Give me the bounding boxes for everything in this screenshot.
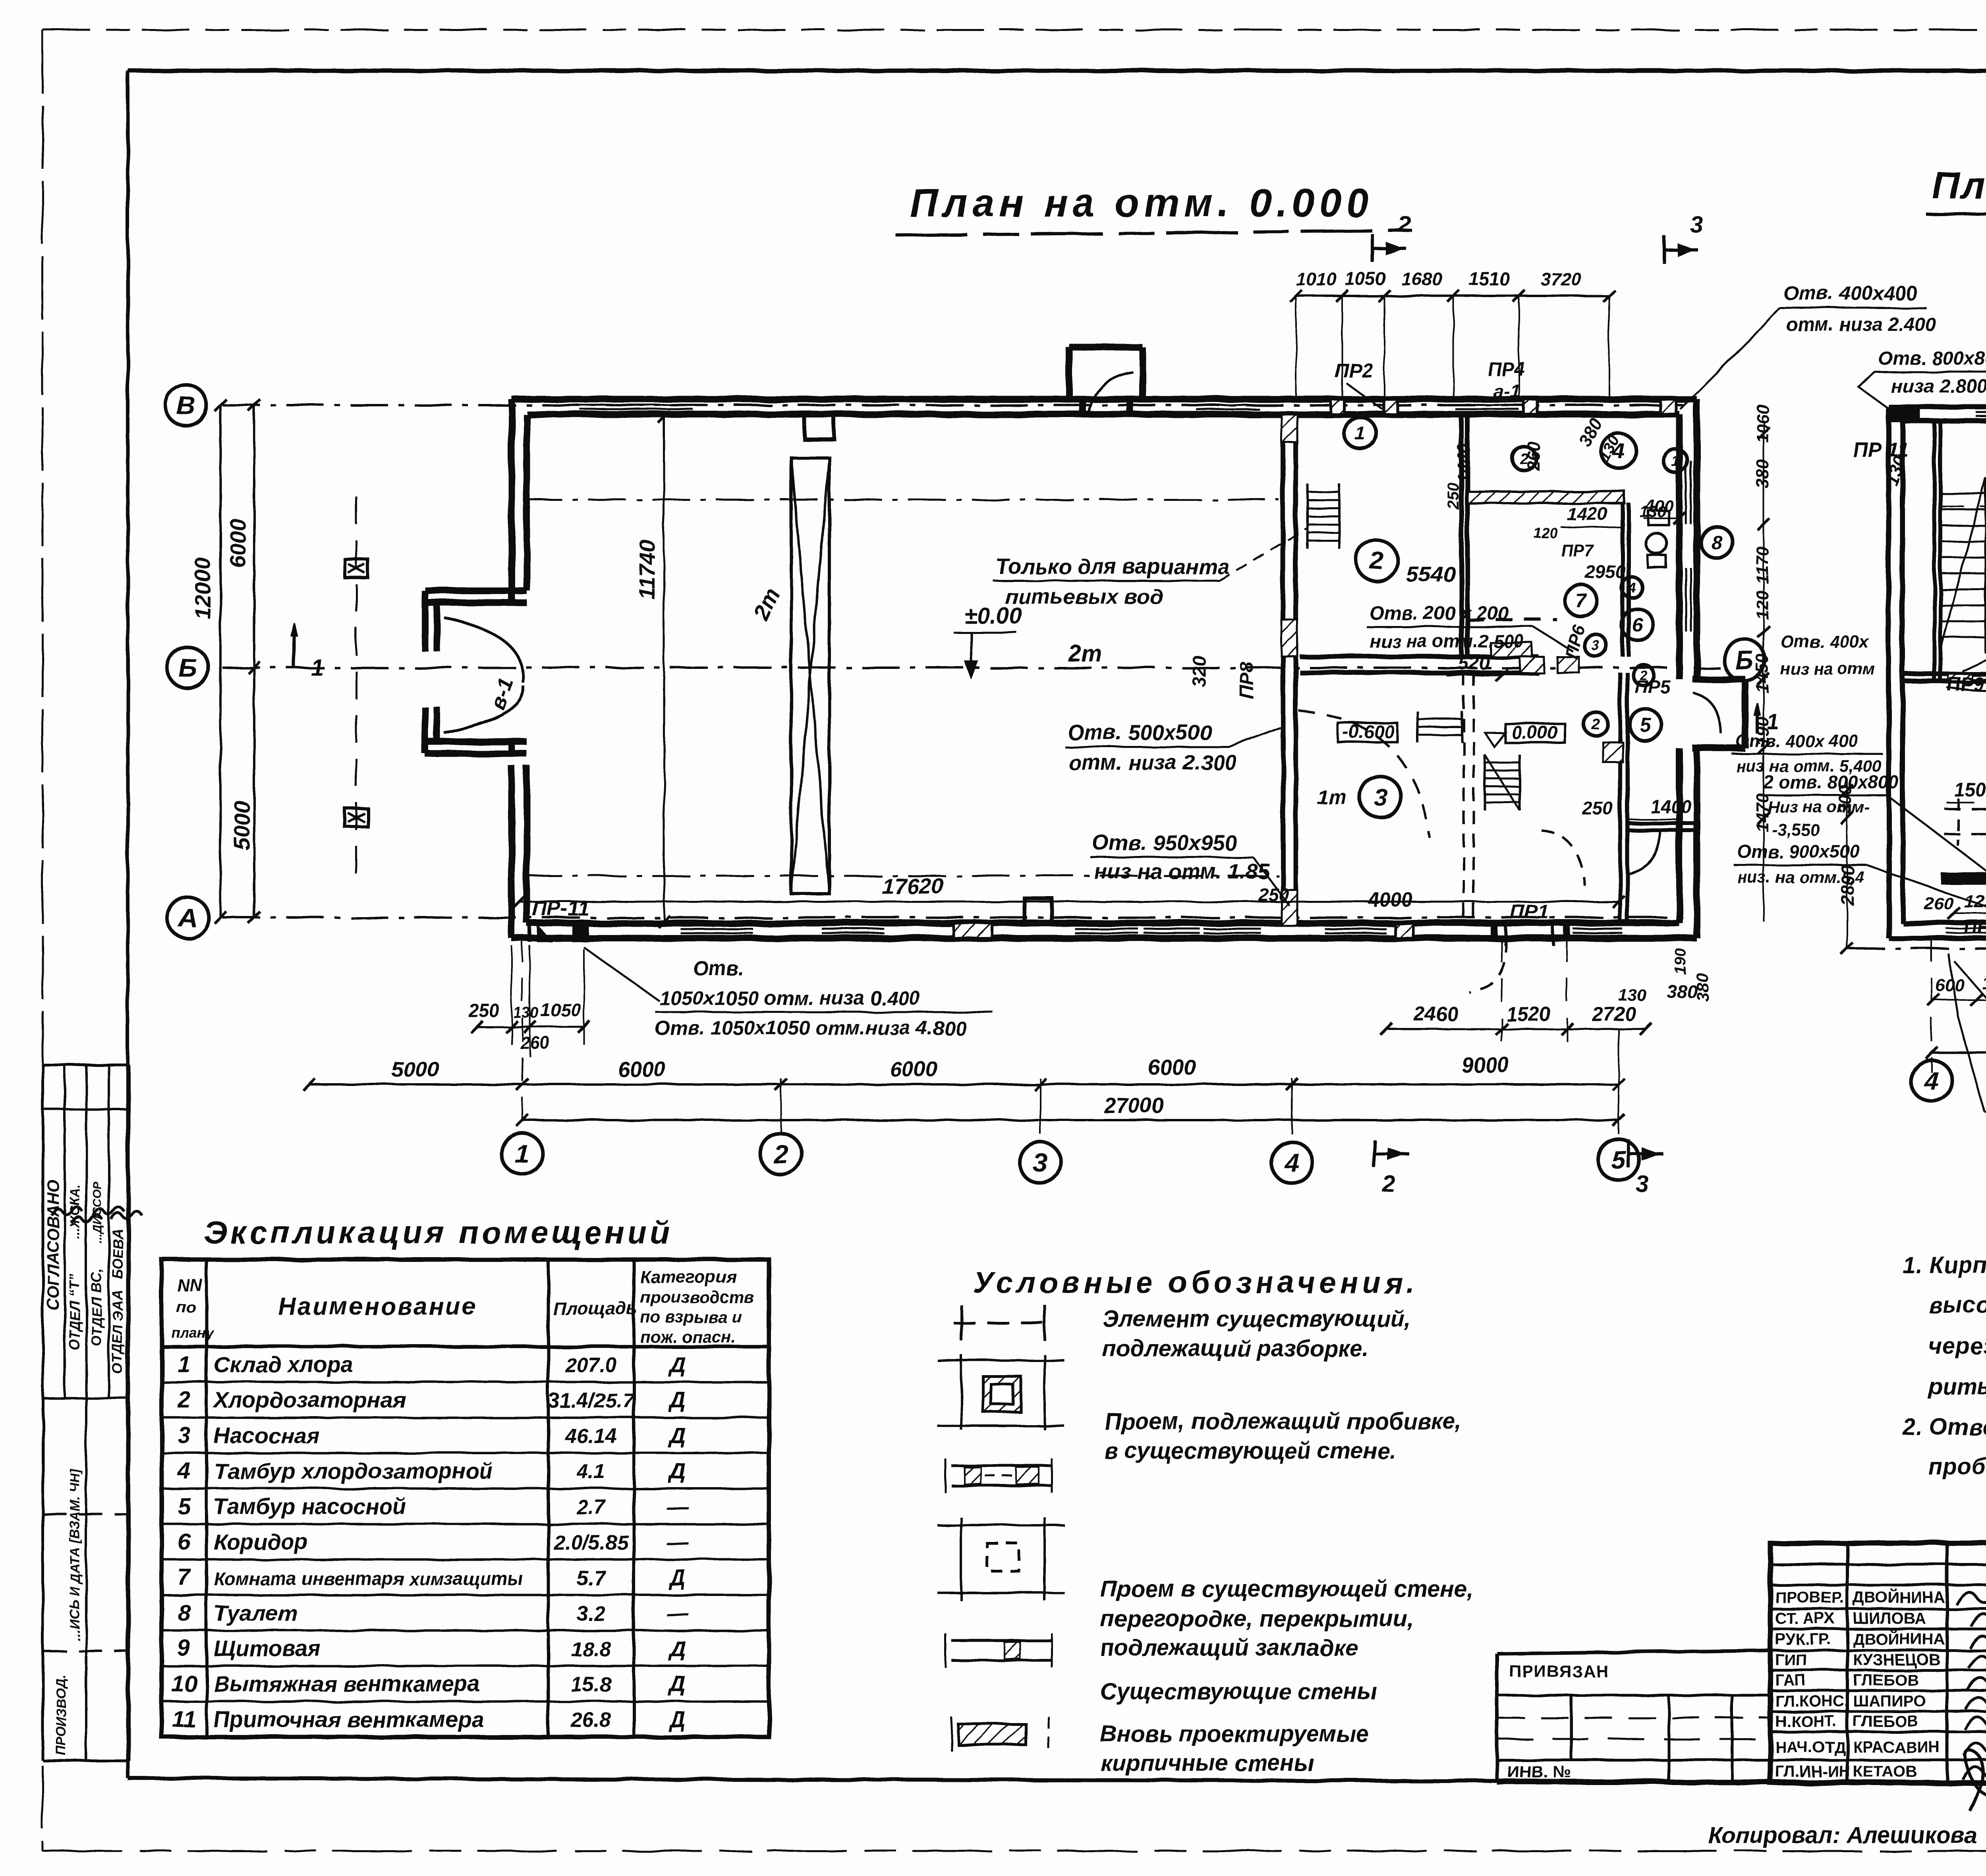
svg-text:ШИЛОВА: ШИЛОВА [1853, 1610, 1926, 1627]
svg-text:ГЛ.КОНС.: ГЛ.КОНС. [1775, 1692, 1849, 1710]
small circle 4 [1621, 577, 1642, 597]
svg-text:ГЛЕБОВ: ГЛЕБОВ [1853, 1671, 1918, 1689]
svg-text:рить к стойкам.: рить к стойкам. [1928, 1374, 1986, 1399]
left margin approval table [42, 1065, 44, 1761]
window bottom wall 7 [1573, 922, 1623, 925]
axis circle 5 [1598, 1139, 1639, 1180]
svg-text:Отв. 1050х1050 отм.низа 4.800: Отв. 1050х1050 отм.низа 4.800 [655, 1017, 966, 1039]
double door leaf arcs в-1 [444, 618, 523, 682]
svg-text:1170: 1170 [1753, 546, 1772, 584]
interior wall room2 right vertical [1459, 414, 1464, 657]
svg-text:2. Отверстие в осях 1-2 ни: 2. Отверстие в осях 1-2 низ на отм. 4.80… [1902, 1414, 1986, 1440]
stair middle [1484, 755, 1486, 810]
svg-text:1: 1 [1671, 453, 1679, 469]
svg-text:10: 10 [171, 1671, 197, 1697]
svg-text:Туалет: Туалет [214, 1600, 298, 1625]
svg-text:Отв. 200 х 200: Отв. 200 х 200 [1370, 603, 1509, 624]
table row line 9 [162, 1665, 769, 1667]
exterior wall right upper [1694, 399, 1700, 679]
svg-text:11: 11 [172, 1706, 196, 1732]
svg-text:КЕТАОВ: КЕТАОВ [1853, 1763, 1917, 1780]
svg-text:1400: 1400 [1650, 796, 1691, 817]
svg-text:4: 4 [1284, 1148, 1300, 1177]
svg-text:250: 250 [1582, 798, 1613, 819]
table row line 10 [162, 1700, 769, 1703]
svg-text:Условные обозначения.: Условные обозначения. [973, 1266, 1418, 1300]
window bottom wall 2 [822, 922, 884, 925]
new brick wall room4/7 hatched [1467, 491, 1625, 503]
heavy filled wall segment room11 [1941, 872, 1986, 884]
svg-text:Только для варианта: Только для варианта [996, 555, 1229, 579]
partition room6 horizontal [1627, 821, 1694, 825]
table row line 5 [162, 1523, 769, 1525]
pilaster top wall [804, 414, 834, 439]
washbasin room 8 [1648, 511, 1669, 525]
svg-text:Д: Д [668, 1423, 686, 1448]
svg-text:в существующей стене.: в существующей стене. [1104, 1438, 1396, 1464]
room circle 1 [1344, 417, 1376, 449]
opening ПР-11 solid marks [537, 924, 553, 942]
svg-text:плану: плану [172, 1325, 214, 1341]
toilet fixture room 8 [1646, 533, 1667, 554]
svg-text:низ на отм. 1.85: низ на отм. 1.85 [1094, 860, 1270, 883]
svg-text:ДВОЙНИНА: ДВОЙНИНА [1853, 1588, 1945, 1606]
hatched pier bottom wall [953, 923, 992, 938]
svg-text:1420: 1420 [1567, 504, 1608, 524]
svg-text:Д: Д [668, 1352, 686, 1377]
svg-text:ПР4: ПР4 [1488, 359, 1524, 380]
svg-text:46.14: 46.14 [565, 1425, 617, 1448]
inner drawing frame [128, 69, 1986, 73]
svg-text:ОТДЕЛ ЭАА: ОТДЕЛ ЭАА [109, 1290, 126, 1374]
exterior wall right lower [1694, 748, 1700, 938]
svg-text:520: 520 [1458, 653, 1489, 674]
legend symbol 4: opening to be filled [960, 1517, 962, 1601]
svg-text:Склад хлора: Склад хлора [214, 1352, 353, 1377]
svg-text:15.8: 15.8 [571, 1673, 611, 1696]
svg-text:3: 3 [1636, 1171, 1648, 1197]
svg-text:2т: 2т [1068, 641, 1102, 667]
hatched new wall above Б wall [1491, 643, 1532, 657]
small circle 3 [1584, 634, 1607, 657]
svg-text:1510: 1510 [1469, 269, 1510, 289]
window top wall rp1 [1976, 406, 1986, 409]
bottom overall dim 27000 [522, 1119, 1619, 1121]
svg-text:Отв. 400х 400: Отв. 400х 400 [1736, 731, 1858, 751]
hatched pier bottom wall right [1395, 923, 1413, 938]
legend symbol 6: new brick walls [958, 1724, 1026, 1745]
svg-text:Отв. 400х: Отв. 400х [1780, 632, 1869, 651]
level mark -0.600 [1338, 723, 1397, 742]
svg-text:1: 1 [515, 1139, 530, 1169]
svg-text:1235: 1235 [1964, 891, 1986, 912]
svg-text:по: по [177, 1299, 196, 1316]
svg-text:Насосная: Насосная [214, 1423, 319, 1448]
svg-text:9000: 9000 [1462, 1053, 1509, 1077]
svg-text:—: — [666, 1494, 689, 1519]
bottom dim small 250 130 1050 [477, 1026, 584, 1028]
svg-text:260: 260 [1524, 441, 1544, 471]
svg-text:9: 9 [178, 1635, 190, 1661]
stamp signatures column [1956, 1589, 1986, 1605]
svg-text:-0.600: -0.600 [1343, 721, 1395, 742]
svg-text:через 5 рядов кладки . Арма: через 5 рядов кладки . Арматуру прива- [1928, 1333, 1986, 1359]
opening hatches on room9 walls [1948, 674, 1972, 681]
svg-text:ИНВ. №: ИНВ. № [1507, 1762, 1571, 1781]
svg-text:250: 250 [1445, 483, 1462, 510]
svg-text:31.4/25.7: 31.4/25.7 [548, 1389, 635, 1412]
svg-text:КУЗНЕЦОВ: КУЗНЕЦОВ [1853, 1651, 1940, 1669]
svg-text:380: 380 [1693, 973, 1712, 1001]
interior wall stair enclosure right plan [1932, 421, 1936, 679]
svg-text:а-1: а-1 [1493, 381, 1520, 402]
stamp outer frame [1770, 1543, 1986, 1783]
svg-text:Проем в существующей стене,: Проем в существующей стене, [1100, 1576, 1473, 1602]
svg-text:Наименование: Наименование [278, 1293, 477, 1320]
exterior wall left lower [508, 765, 515, 938]
window bottom wall 5 [1204, 922, 1261, 925]
axis line А (right plan) [1847, 947, 1986, 950]
section flag 3 top [1663, 236, 1666, 264]
right plan exterior walls [1889, 405, 1986, 410]
svg-text:4: 4 [1628, 580, 1636, 595]
svg-text:РУК.ГР.: РУК.ГР. [1775, 1631, 1831, 1648]
extension lines from top dims [1295, 296, 1297, 399]
room circle 3 [1360, 777, 1401, 818]
svg-text:СОГЛАСОВАНО: СОГЛАСОВАНО [44, 1180, 62, 1311]
window bottom wall 1 [680, 922, 753, 925]
small circle 2 near ПР5 [1633, 665, 1654, 686]
svg-text:Д: Д [668, 1671, 686, 1696]
partition above corridor y~1560 [1467, 618, 1557, 621]
svg-text:3: 3 [1033, 1148, 1048, 1177]
hatch patch on interior wall top [1281, 414, 1297, 442]
axis circle Б right of left plan [1724, 640, 1765, 681]
hatched pier top wall c [1524, 399, 1537, 414]
svg-text:250: 250 [1258, 884, 1289, 905]
interior wall room2/room3 on Б [1300, 654, 1538, 659]
window top wall 1 [580, 398, 693, 401]
room circle 6 [1621, 609, 1653, 640]
table row line 1 [162, 1381, 769, 1383]
door arc room5 dashed [1541, 830, 1585, 886]
legend symbol 5: existing walls [951, 1639, 1053, 1642]
pilaster bottom wall [1025, 898, 1052, 923]
hatched pier near ПР5 [1603, 742, 1623, 762]
stair hall (ladder) [1306, 484, 1309, 549]
svg-text:Хлордозаторная: Хлордозаторная [213, 1387, 406, 1412]
black filled pier top left [1889, 407, 1920, 422]
window bottom wall 4 [1144, 922, 1200, 925]
svg-text:Д: Д [668, 1636, 686, 1661]
hoist symbol top [345, 559, 368, 578]
window right wall 1 [1678, 461, 1681, 524]
svg-text:Тамбур хлордозаторной: Тамбур хлордозаторной [214, 1458, 493, 1483]
svg-text:1050х1050 отм. низа 0.400: 1050х1050 отм. низа 0.400 [659, 987, 920, 1009]
door arc room3 dashed [1299, 711, 1430, 838]
svg-text:3: 3 [178, 1422, 190, 1448]
svg-text:130: 130 [1619, 986, 1646, 1005]
window top wall 3 [1455, 398, 1519, 401]
svg-text:2: 2 [773, 1139, 788, 1169]
partition room5/6 vertical [1618, 672, 1622, 923]
svg-text:Отв.: Отв. [693, 957, 744, 980]
table row line 3 [162, 1452, 769, 1454]
svg-text:КРАСАВИН: КРАСАВИН [1853, 1739, 1940, 1756]
svg-text:ОТДЕЛ “Т”: ОТДЕЛ “Т” [66, 1274, 83, 1350]
svg-text:низ на отм.2.500: низ на отм.2.500 [1370, 631, 1524, 651]
svg-text:Вновь проектируемые: Вновь проектируемые [1100, 1721, 1369, 1747]
svg-text:18.8: 18.8 [571, 1638, 611, 1661]
small steps near 0.000 [1416, 711, 1418, 742]
svg-text:1: 1 [311, 655, 323, 680]
svg-text:Д: Д [668, 1565, 686, 1590]
svg-text:производств: производств [640, 1288, 754, 1306]
svg-text:Д: Д [668, 1707, 686, 1732]
stamp horizontal lines left part [1770, 1563, 1986, 1566]
door opening bottom with arc [1491, 923, 1497, 938]
svg-text:6000: 6000 [618, 1057, 665, 1081]
svg-text:6000: 6000 [890, 1057, 937, 1081]
door arc room6 [1629, 830, 1660, 874]
svg-text:ПР2: ПР2 [1964, 917, 1986, 938]
svg-text:7: 7 [1575, 590, 1587, 612]
svg-text:1520: 1520 [1506, 1003, 1550, 1025]
left vertical dimension line 6000/5000 [253, 405, 255, 918]
svg-text:ПР1: ПР1 [1510, 900, 1549, 923]
margin signatures [52, 1207, 83, 1215]
svg-text:перегородке, перекрытии,: перегородке, перекрытии, [1100, 1606, 1414, 1632]
svg-text:Категория: Категория [640, 1267, 737, 1287]
axis circle 1 [502, 1133, 543, 1175]
opening ПР9 lower hatched [1281, 890, 1297, 925]
crane rail axis lower [524, 875, 1279, 877]
dim 17620 [519, 901, 1619, 903]
svg-text:Существующие стены: Существующие стены [1100, 1679, 1377, 1704]
hatched pier room4 [1520, 657, 1544, 672]
svg-text:1: 1 [1767, 710, 1779, 734]
svg-text:Коридор: Коридор [214, 1529, 308, 1554]
svg-text:320: 320 [1189, 655, 1210, 687]
svg-text:4: 4 [1924, 1066, 1939, 1095]
svg-text:БОЕВА: БОЕВА [109, 1228, 126, 1279]
section mark 1 right [1756, 707, 1759, 734]
svg-text:ПР7: ПР7 [1561, 541, 1594, 560]
table row line 7 [162, 1594, 769, 1596]
svg-text:—: — [666, 1529, 689, 1554]
svg-text:План на отм. 0.000: План на отм. 0.000 [910, 181, 1373, 225]
svg-text:260: 260 [520, 1033, 550, 1053]
svg-text:1050: 1050 [540, 999, 581, 1020]
legend symbol 3: wall band with hatched piers [951, 1464, 1053, 1467]
big signature flourish below stamp [1965, 1750, 1986, 1811]
svg-text:2.0/5.85: 2.0/5.85 [553, 1531, 629, 1554]
svg-text:А: А [178, 903, 197, 932]
axis line А (left plan) [222, 916, 1690, 919]
wall below room9 horizontal [1903, 672, 1986, 676]
window top wall 2 [1196, 398, 1260, 401]
svg-text:1060: 1060 [1753, 404, 1772, 443]
svg-text:2.7: 2.7 [576, 1496, 606, 1519]
svg-text:5: 5 [1640, 714, 1652, 736]
svg-text:ГАП: ГАП [1775, 1671, 1806, 1689]
outer sheet border [43, 29, 1986, 31]
svg-text:Комната инвентаря химзащиты: Комната инвентаря химзащиты [214, 1569, 523, 1589]
level mark 0.000 [1505, 724, 1565, 743]
svg-text:1010: 1010 [1296, 269, 1337, 289]
svg-text:ОТДЕЛ ВС,: ОТДЕЛ ВС, [88, 1269, 104, 1347]
svg-text:6: 6 [1632, 614, 1643, 636]
interior wall hall/rooms vertical [1281, 414, 1285, 923]
svg-text:низа 2.800: низа 2.800 [1891, 376, 1986, 397]
svg-text:2720: 2720 [1592, 1003, 1636, 1025]
svg-text:Вытяжная венткамера: Вытяжная венткамера [214, 1671, 480, 1696]
svg-text:17620: 17620 [882, 873, 944, 898]
privyazan grid verticals [1570, 1695, 1573, 1760]
svg-text:1680: 1680 [1401, 269, 1442, 289]
svg-text:260: 260 [1924, 894, 1954, 914]
svg-text:3: 3 [1690, 212, 1703, 238]
svg-text:План на отм. 3.200: План на отм. 3.200 [1932, 164, 1986, 207]
svg-text:кирпичные стены: кирпичные стены [1100, 1750, 1314, 1776]
svg-text:3.2: 3.2 [577, 1602, 605, 1625]
svg-text:ПР-11: ПР-11 [532, 897, 589, 920]
svg-text:Б: Б [1735, 645, 1754, 675]
svg-text:ШАПИРО: ШАПИРО [1853, 1692, 1926, 1710]
bottom dim 9000 right plan [1932, 1051, 1986, 1054]
svg-text:2: 2 [1591, 716, 1600, 732]
svg-text:4: 4 [177, 1458, 190, 1484]
svg-text:по взрыва и: по взрыва и [640, 1308, 742, 1326]
svg-text:ПР5: ПР5 [1635, 676, 1671, 697]
section flag 2 top [1371, 234, 1374, 262]
svg-text:5000: 5000 [391, 1057, 439, 1081]
svg-text:Элемент существующий,: Элемент существующий, [1102, 1306, 1411, 1332]
table row line 8 [162, 1629, 769, 1632]
vent equipment dashed room11 [1944, 808, 1986, 810]
svg-text:1440: 1440 [1454, 444, 1474, 483]
svg-text:ПР9: ПР9 [1947, 674, 1984, 695]
svg-text:ГЛ.ИН-ИН: ГЛ.ИН-ИН [1775, 1763, 1850, 1780]
svg-text:питьевых вод: питьевых вод [1005, 585, 1163, 609]
section mark 1 left [292, 626, 296, 667]
stamp vertical dividers [1846, 1543, 1849, 1783]
svg-text:Экспликация помещений: Экспликация помещений [204, 1215, 672, 1250]
svg-text:6000: 6000 [1148, 1055, 1196, 1079]
svg-text:6: 6 [178, 1529, 191, 1555]
svg-text:1т: 1т [1317, 786, 1347, 809]
legend symbol 2: opening to be cut [960, 1354, 962, 1430]
small dims 2460 1520 2720 [1386, 1028, 1646, 1030]
svg-text:Д: Д [668, 1458, 686, 1483]
svg-text:1050: 1050 [1345, 269, 1386, 289]
dims 600 1000 [1934, 999, 1986, 1001]
svg-text:130: 130 [513, 1005, 538, 1021]
svg-text:0.000: 0.000 [1512, 722, 1558, 743]
svg-text:НАЧ.ОТД: НАЧ.ОТД [1775, 1739, 1845, 1756]
crane rail axis upper [524, 499, 1279, 501]
svg-text:120: 120 [1534, 525, 1558, 541]
svg-text:250: 250 [468, 1000, 499, 1021]
window bottom wall 3 [1075, 922, 1138, 925]
axis circle 4 [1271, 1142, 1313, 1183]
svg-text:207.0: 207.0 [565, 1354, 617, 1377]
opening ПР8 upper hatched [1281, 620, 1297, 656]
svg-text:Отв. 900х500: Отв. 900х500 [1737, 841, 1860, 862]
svg-text:2: 2 [1370, 547, 1383, 575]
hatched pier top wall a [1331, 399, 1344, 414]
svg-text:5: 5 [178, 1493, 191, 1519]
svg-text:400: 400 [1645, 497, 1673, 515]
svg-text:низ на отм: низ на отм [1780, 659, 1875, 678]
svg-text:5: 5 [1611, 1145, 1627, 1175]
small circle 2 near room4 [1513, 447, 1536, 471]
svg-text:2460: 2460 [1414, 1003, 1458, 1025]
svg-text:5000: 5000 [229, 800, 254, 850]
svg-text:СТ. АРХ: СТ. АРХ [1775, 1610, 1835, 1627]
svg-text:высотой 3.5 на отм. 3.2.0 а: высотой 3.5 на отм. 3.2.0 армировать Ф6 … [1928, 1292, 1986, 1318]
svg-text:Проем, подлежащий пробивке,: Проем, подлежащий пробивке, [1104, 1408, 1462, 1434]
hatched pier top wall b [1384, 399, 1397, 414]
svg-text:27000: 27000 [1104, 1094, 1164, 1118]
privyazan block frame [1497, 1650, 1770, 1654]
svg-text:4.1: 4.1 [576, 1460, 605, 1483]
svg-text:-3,550: -3,550 [1772, 821, 1820, 839]
svg-text:отм. низа 2.300: отм. низа 2.300 [1068, 751, 1237, 775]
svg-text:Тамбур насосной: Тамбур насосной [214, 1494, 406, 1519]
svg-text:3720: 3720 [1540, 269, 1581, 289]
partition room3/stair dashed (demolition) [1462, 672, 1465, 923]
svg-text:3: 3 [1374, 784, 1387, 811]
svg-text:7: 7 [178, 1565, 191, 1590]
exterior wall top (left plan) [512, 396, 1697, 403]
pier next to opening [1557, 657, 1579, 672]
svg-text:Площадь: Площадь [553, 1298, 638, 1319]
svg-text:ПР8: ПР8 [1236, 662, 1258, 699]
svg-text:4000: 4000 [1368, 889, 1412, 911]
room circle 7 [1565, 585, 1597, 616]
table row line 6 [162, 1558, 769, 1561]
svg-text:120: 120 [1753, 590, 1772, 620]
hoist symbol bottom [345, 808, 368, 827]
svg-text:ПРОИЗВОД.: ПРОИЗВОД. [54, 1675, 69, 1756]
svg-text:26.8: 26.8 [570, 1709, 611, 1732]
svg-text:В: В [176, 390, 195, 420]
section flag 3 bottom [1627, 1140, 1630, 1168]
explication table frame [162, 1260, 769, 1737]
svg-text:1000: 1000 [1982, 974, 1986, 993]
svg-text:12000: 12000 [190, 558, 215, 620]
svg-text:подлежащий закладке: подлежащий закладке [1100, 1635, 1358, 1661]
dashed dim 5540 right plan [1940, 506, 1986, 507]
svg-text:Приточная венткамера: Приточная венткамера [214, 1707, 484, 1732]
canopy porch top [1066, 347, 1073, 399]
svg-text:NN: NN [177, 1275, 203, 1295]
svg-text:ГИП: ГИП [1775, 1651, 1807, 1669]
svg-text:Отв. 500х500: Отв. 500х500 [1067, 721, 1211, 744]
svg-text:2: 2 [177, 1387, 190, 1413]
privyazan grid rows [1497, 1717, 1770, 1719]
section flag 2 bottom [1373, 1140, 1376, 1168]
room circle 4 [1601, 433, 1636, 468]
svg-text:600: 600 [1935, 976, 1965, 995]
svg-text:1500: 1500 [1954, 780, 1986, 801]
svg-text:подлежащий разборке.: подлежащий разборке. [1102, 1336, 1369, 1362]
legend symbol 1: element to demolish [960, 1305, 963, 1341]
axis circle 2 [760, 1133, 802, 1175]
window right wall 2 [1678, 568, 1681, 632]
svg-text:2 отв. 800х800: 2 отв. 800х800 [1763, 772, 1899, 792]
